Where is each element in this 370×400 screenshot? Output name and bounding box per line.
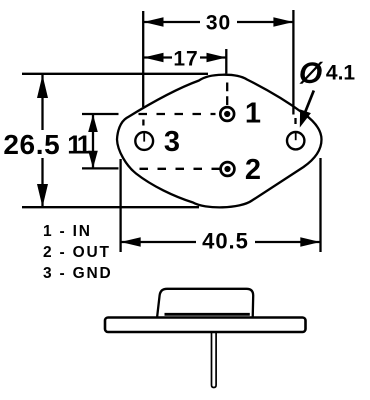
arrow 11 top — [88, 114, 98, 132]
dimension line 30 — [144, 21, 201, 23]
arrow 11 bottom — [88, 151, 98, 169]
svg-text:2 - OUT: 2 - OUT — [43, 244, 111, 261]
svg-text:1: 1 — [245, 98, 261, 130]
dashed centerline pin1 horizontal — [139, 113, 216, 115]
extension line package left for 40.5 — [119, 159, 121, 252]
pin 1 — [220, 107, 234, 121]
dashed centerline above pin1 vertical — [226, 83, 228, 106]
arrow 40.5 left — [121, 237, 141, 247]
svg-text:3: 3 — [164, 126, 180, 158]
extension line left for 30/17 — [142, 11, 144, 107]
svg-text:1 - IN: 1 - IN — [43, 223, 92, 240]
extension line package right for 40.5 — [319, 158, 321, 252]
dimension line 26.5 — [41, 75, 43, 130]
hole left orientation mark — [143, 132, 145, 141]
svg-text:11: 11 — [67, 130, 91, 160]
side view cap inner line — [165, 313, 250, 316]
dimension line 17 — [144, 56, 173, 58]
extension line package top for 26.5 — [22, 73, 208, 75]
extension line right for 30 — [292, 10, 294, 115]
arrow 40.5 right — [300, 237, 320, 247]
pin 1 center dot — [224, 111, 230, 117]
svg-text:26.5: 26.5 — [3, 129, 60, 160]
svg-text:4.1: 4.1 — [326, 62, 356, 85]
hole right orientation mark — [295, 132, 297, 140]
arrow 30 right — [273, 17, 293, 27]
mounting hole left — [135, 132, 153, 150]
arrowhead diameter 4.1 leader — [300, 109, 311, 127]
svg-text:3 - GND: 3 - GND — [43, 265, 112, 282]
svg-text:17: 17 — [173, 48, 198, 71]
mounting hole right — [287, 132, 304, 149]
arrow 26.5 top — [37, 75, 48, 98]
side view pin — [212, 332, 217, 388]
svg-text:40.5: 40.5 — [202, 228, 249, 253]
dashed centerline above left hole — [142, 120, 144, 126]
dashed centerline above right hole — [294, 118, 296, 124]
pin 2 center dot — [224, 166, 230, 172]
arrow 17 left — [144, 53, 164, 63]
svg-text:2: 2 — [245, 154, 261, 186]
svg-text:Ø: Ø — [299, 57, 324, 90]
pin 2 — [221, 162, 235, 176]
arrow 26.5 bottom — [37, 184, 48, 207]
arrow 30 left — [144, 17, 164, 27]
extension line pin axis for 17 — [225, 49, 227, 74]
extension line pin1 level for 11 — [82, 113, 119, 115]
dimension line 40.5 — [121, 241, 196, 243]
svg-text:30: 30 — [206, 12, 231, 35]
side view cap — [157, 289, 253, 318]
extension line pin2 level for 11 — [82, 167, 119, 169]
package outline TO-3 top view — [117, 75, 322, 208]
arrow 17 right — [207, 53, 227, 63]
dashed centerline pin2 horizontal — [140, 168, 221, 170]
side view flange — [105, 318, 306, 333]
dimension line 11 — [92, 114, 94, 168]
extension line package bottom for 26.5 — [22, 206, 199, 208]
leader line diameter 4.1 — [305, 91, 314, 113]
